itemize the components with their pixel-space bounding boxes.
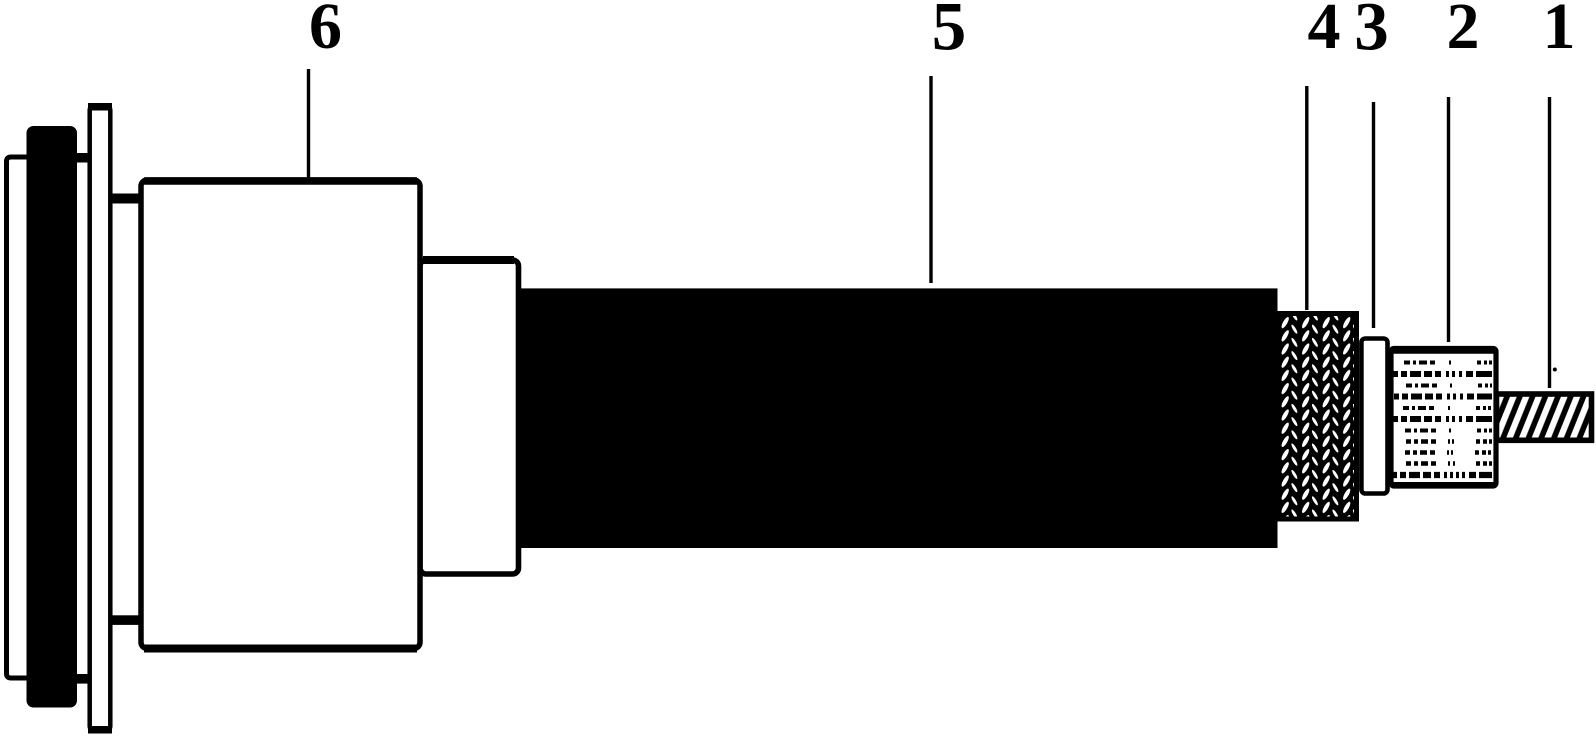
svg-text:6: 6	[309, 0, 342, 63]
outer flange plate (left open rectangle)	[7, 157, 92, 678]
stipple row 8	[1406, 439, 1492, 444]
body 6 thick bottom edge	[144, 645, 417, 653]
tie bottom: gasket to flange disc	[74, 674, 91, 684]
svg-text:2: 2	[1447, 0, 1480, 63]
connector body 6	[141, 180, 420, 648]
leader line 2	[1447, 97, 1450, 342]
stipple row 3	[1406, 384, 1492, 388]
leader line 5	[929, 76, 932, 283]
stipple row 10	[1406, 461, 1492, 466]
svg-text:4: 4	[1308, 0, 1341, 63]
insulation 2 thick top edge	[1392, 348, 1495, 354]
leader line 6	[307, 69, 310, 178]
stipple row 11 (bold)	[1392, 472, 1492, 478]
stipple row 9	[1405, 450, 1491, 455]
leader line 1	[1548, 97, 1551, 388]
stipple row 1	[1404, 361, 1492, 365]
centre conductor 1 (hatched rod)	[1497, 394, 1592, 440]
gasket bar (black filled vertical bar)	[27, 126, 78, 708]
tie top: gasket to flange disc	[74, 153, 91, 163]
stipple row 2 (bold)	[1393, 371, 1492, 377]
speck near leader 1	[1553, 368, 1557, 372]
leader line 3	[1372, 102, 1375, 328]
insulation 2 thick bottom edge	[1392, 482, 1495, 488]
body 6 thick top edge	[144, 177, 417, 185]
cable jacket 5 (black rectangle)	[518, 288, 1278, 548]
stipple row 6 (bold)	[1393, 416, 1492, 422]
flange disc (tall white bar)	[90, 105, 111, 731]
stipple row 7	[1405, 429, 1492, 433]
tie bottom: flange disc to body 6	[110, 615, 142, 625]
svg-text:1: 1	[1543, 0, 1576, 63]
svg-text:5: 5	[932, 0, 967, 65]
svg-text:3: 3	[1354, 0, 1389, 65]
braid shield 4 (woven texture block)	[1279, 314, 1357, 520]
step collar between body 6 and jacket 5	[420, 260, 519, 574]
leader line 4	[1305, 86, 1308, 310]
flange disc thick bottom cap	[88, 726, 112, 734]
step collar thick top edge	[423, 256, 514, 264]
tie top: flange disc to body 6	[110, 194, 142, 204]
stipple row 5	[1403, 406, 1491, 410]
inner spacer ring 3 (small white rectangle)	[1361, 339, 1387, 494]
insulation 2 (stippled rectangle)	[1391, 349, 1496, 487]
stipple row 4 (bold)	[1394, 394, 1492, 400]
flange disc thick top cap	[88, 103, 112, 111]
